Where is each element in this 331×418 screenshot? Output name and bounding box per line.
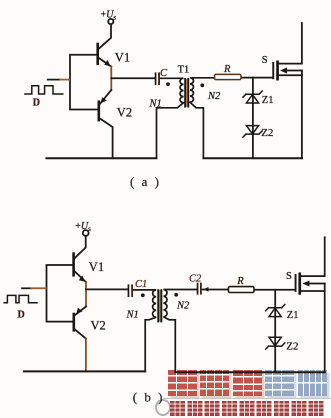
square wave symbol (a) <box>25 86 63 94</box>
svg-text:S: S <box>262 55 268 66</box>
watermark logo char 5 (训) <box>298 370 327 396</box>
svg-text:V1: V1 <box>115 51 130 65</box>
MOSFET S (a) source arrow lead <box>285 70 302 72</box>
ground rail secondary (a) <box>203 157 302 159</box>
wire C2 to R to gate with zener junction (b) <box>202 289 295 291</box>
MOSFET channel bar (b) <box>298 273 301 295</box>
MOSFET S (b) drain lead + stub <box>301 237 325 276</box>
zener chain vertical (b) <box>274 290 276 372</box>
watermark logo char 3 (拓) <box>233 370 262 396</box>
transformer core bars (b) <box>157 289 159 322</box>
wire supply to V1 collector (b) <box>75 236 86 258</box>
capacitor C2 plates (b) <box>197 283 199 295</box>
MOSFET source arrow (b) <box>302 281 309 287</box>
zener Z2 (b) <box>269 337 281 346</box>
ground rail primary (b) <box>24 370 145 372</box>
zener Z1 (b) <box>266 305 285 311</box>
primary winding (b) + bottom lead <box>133 290 156 372</box>
wire node to C1 (b) <box>86 288 128 290</box>
supply +Us terminal circle <box>108 19 113 24</box>
square wave symbol (b) <box>4 295 37 302</box>
svg-text:Z2: Z2 <box>261 127 273 139</box>
transistor V1 emitter (b) <box>75 272 86 283</box>
svg-text:C: C <box>160 68 168 79</box>
svg-text:C1: C1 <box>135 279 147 290</box>
input wire (a) <box>48 79 61 81</box>
svg-text:N1: N1 <box>149 98 162 109</box>
svg-text:V2: V2 <box>91 319 106 333</box>
MOSFET S (a) source lead <box>279 74 302 76</box>
V1 emitter arrow (a) <box>104 60 110 66</box>
small arrow after C2 (b) <box>204 287 209 292</box>
base junction box (b) <box>47 265 73 322</box>
ground rail secondary (b) <box>175 371 324 373</box>
wire R to gate with zener junction (a) <box>241 77 272 79</box>
svg-text:( a ): ( a ) <box>130 174 161 189</box>
svg-text:V1: V1 <box>89 260 104 274</box>
watermark gray underline <box>163 398 331 400</box>
transistor V2 collector (b) <box>75 330 86 339</box>
node emitters vertical (a) <box>110 67 112 90</box>
transistor V2 collector <box>100 119 113 159</box>
svg-text:+Us: +Us <box>75 221 91 233</box>
secondary winding T1 + bottom lead <box>190 78 215 158</box>
watermark slogan line 2 (射频和天线设计专家) <box>170 401 324 416</box>
svg-text:N2: N2 <box>176 300 190 311</box>
base junction box (a) <box>70 55 98 110</box>
svg-text:N1: N1 <box>126 309 139 320</box>
watermark logo char 2 (迪) <box>200 370 229 396</box>
MOSFET channel bar (a) <box>276 61 279 81</box>
svg-text:( b ): ( b ) <box>133 389 165 404</box>
resistor R box (a) <box>215 74 242 79</box>
transistor V2 base bar (b) <box>73 314 76 330</box>
V1 emitter arrow (b) <box>79 275 85 281</box>
svg-text:Z1: Z1 <box>262 95 274 106</box>
supply +Us terminal circle (b) <box>83 230 89 236</box>
svg-text:T1: T1 <box>178 65 190 76</box>
zener Z1 (a) <box>243 91 262 97</box>
wire node to C (a) <box>111 77 154 79</box>
svg-text:Z1: Z1 <box>287 310 299 321</box>
ground rail primary (a) <box>47 157 157 159</box>
MOSFET gate bar (a) <box>272 62 274 79</box>
svg-text:+Us: +Us <box>101 10 117 22</box>
capacitor C plates (a) <box>155 72 157 85</box>
zener chain vertical (a) <box>252 78 254 159</box>
svg-text:S: S <box>286 271 292 282</box>
transistor V1 base bar <box>96 44 99 64</box>
wire supply to V1 collector <box>99 24 111 48</box>
transistor V2 emitter (b) <box>76 307 86 315</box>
watermark logo char 4 (培) <box>265 370 294 396</box>
svg-text:R: R <box>236 276 244 287</box>
transistor V1 emitter <box>99 58 111 67</box>
capacitor C1 plates (b) <box>128 284 130 297</box>
MOSFET S (a) source down wire <box>301 71 303 159</box>
input wire (b) <box>22 287 31 289</box>
transistor V1 base bar (b) <box>72 254 75 276</box>
V2 emitter arrow (b) <box>76 308 82 314</box>
svg-text:V2: V2 <box>117 106 132 120</box>
MOSFET S (b) source lead <box>301 290 325 292</box>
secondary winding (b) + bottom lead <box>163 290 196 373</box>
node emitters vertical (b) <box>85 282 87 306</box>
MOSFET S (b) source down wire <box>324 284 326 373</box>
svg-text:C2: C2 <box>189 273 202 284</box>
MOSFET source arrow (a) <box>280 68 287 74</box>
transformer T1 core bars <box>184 78 186 108</box>
polarity dot primary (a) <box>166 82 170 86</box>
transistor V2 base bar <box>98 102 101 120</box>
svg-text:D: D <box>33 98 40 109</box>
resistor R box (b) <box>228 287 254 293</box>
svg-text:D: D <box>18 309 25 320</box>
MOSFET S (a) drain lead + stub <box>279 23 302 64</box>
transistor V2 emitter <box>100 90 111 104</box>
watermark logo char 1 (易) <box>168 370 197 396</box>
zener Z2 (a) <box>246 126 258 134</box>
svg-text:Z2: Z2 <box>286 340 298 352</box>
V2 emitter arrow (a) <box>101 97 107 103</box>
primary winding T1 + bottom lead <box>157 78 184 158</box>
polarity dot secondary (b) <box>174 293 178 297</box>
polarity dot primary (b) <box>141 293 145 297</box>
svg-text:N2: N2 <box>207 91 221 102</box>
MOSFET S (b) source arrow lead <box>308 283 325 285</box>
watermark circular mark <box>155 399 171 416</box>
svg-text:R: R <box>223 64 231 75</box>
polarity dot secondary (a) <box>200 83 204 87</box>
MOSFET gate bar (b) <box>295 274 297 292</box>
